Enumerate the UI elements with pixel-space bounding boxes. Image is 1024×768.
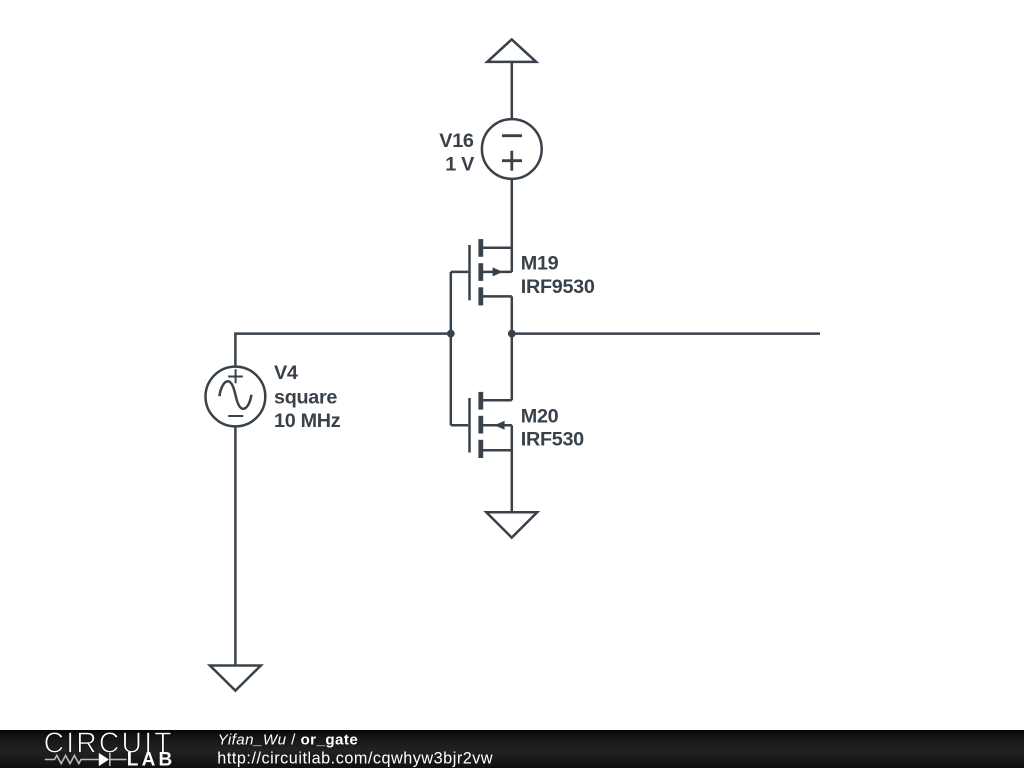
svg-text:10 MHz: 10 MHz [274, 410, 341, 432]
svg-text:LAB: LAB [127, 749, 176, 768]
svg-text:square: square [274, 387, 337, 409]
svg-text:M20: M20 [521, 405, 559, 427]
svg-text:V16: V16 [439, 130, 474, 152]
svg-text:IRF530: IRF530 [521, 429, 584, 451]
svg-text:Yifan_Wu / or_gate: Yifan_Wu / or_gate [218, 731, 359, 748]
svg-text:V4: V4 [274, 362, 298, 384]
svg-text:http://circuitlab.com/cqwhyw3b: http://circuitlab.com/cqwhyw3bjr2vw [217, 749, 493, 767]
svg-text:M19: M19 [521, 253, 559, 275]
svg-text:IRF9530: IRF9530 [521, 276, 595, 298]
svg-text:1 V: 1 V [445, 153, 475, 175]
